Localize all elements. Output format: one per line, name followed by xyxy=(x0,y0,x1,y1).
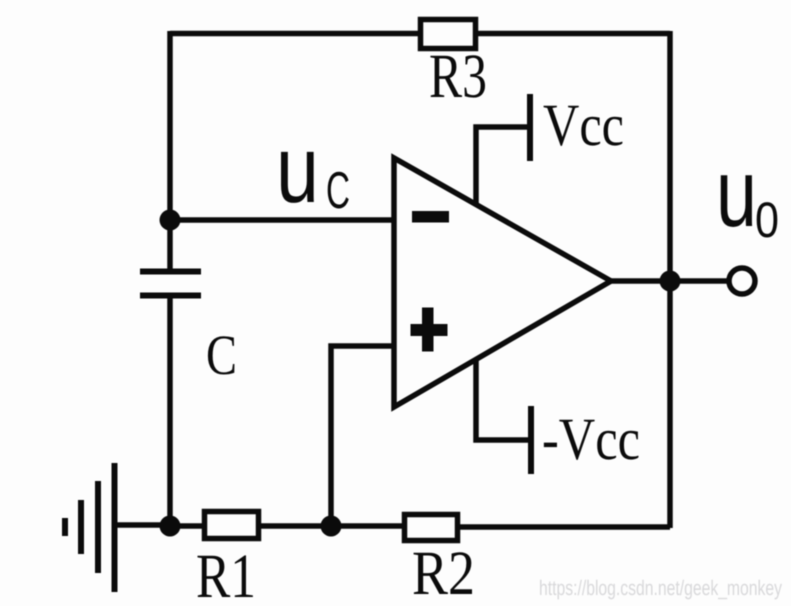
ground xyxy=(65,463,115,592)
wire Vcc supply lead xyxy=(476,127,528,206)
svg-text:Vcc: Vcc xyxy=(543,92,624,158)
wire right vertical rail (top rail to bottom rail) xyxy=(667,31,673,528)
node A junction dot xyxy=(160,516,181,537)
svg-text:R3: R3 xyxy=(429,41,487,111)
label u0 xyxy=(716,140,779,248)
wire node B riser to non-inverting input xyxy=(331,346,394,526)
svg-text:R2: R2 xyxy=(412,538,475,606)
op-amp non-inverting input symbol (plus) xyxy=(411,308,448,352)
wire uC node to op-amp inverting input xyxy=(170,217,394,223)
wire capacitor top lead xyxy=(167,220,173,269)
wire left vertical (top rail down to node uC) xyxy=(167,31,173,220)
wire ground to node A xyxy=(114,522,170,528)
wire -Vcc supply lead xyxy=(476,357,529,440)
svg-text:C: C xyxy=(206,324,237,387)
resistor R2 xyxy=(405,515,458,541)
wire top-right horizontal (R3 to right rail) xyxy=(478,31,670,37)
svg-text:u: u xyxy=(716,140,757,247)
resistor R3 xyxy=(421,20,476,49)
wire capacitor bottom lead xyxy=(167,298,173,527)
-Vcc supply bar xyxy=(528,406,534,474)
svg-text:https://blog.csdn.net/geek_mon: https://blog.csdn.net/geek_monkey xyxy=(539,577,782,600)
op-amp U1 xyxy=(394,158,611,407)
svg-text:C: C xyxy=(326,162,350,220)
svg-text:-Vcc: -Vcc xyxy=(542,406,640,472)
svg-text:R1: R1 xyxy=(196,541,256,606)
op-amp inverting input symbol (minus) xyxy=(412,211,449,223)
node uC junction dot xyxy=(160,210,181,231)
node output junction dot xyxy=(660,271,681,292)
node B junction dot xyxy=(321,516,342,537)
svg-text:0: 0 xyxy=(755,192,779,248)
wire R1 to R2 through node B xyxy=(259,523,404,529)
label uC xyxy=(276,117,350,223)
output terminal (open circle) xyxy=(729,268,755,294)
wire node A to R1 xyxy=(170,523,204,529)
wire R2 to right rail xyxy=(458,524,670,530)
wire op-amp output xyxy=(610,278,729,284)
wire top-left horizontal (node uC to R3) xyxy=(170,31,418,37)
svg-text:u: u xyxy=(276,117,319,223)
resistor R1 xyxy=(205,512,259,539)
Vcc supply bar xyxy=(527,94,533,161)
capacitor C (plates) xyxy=(140,272,201,296)
